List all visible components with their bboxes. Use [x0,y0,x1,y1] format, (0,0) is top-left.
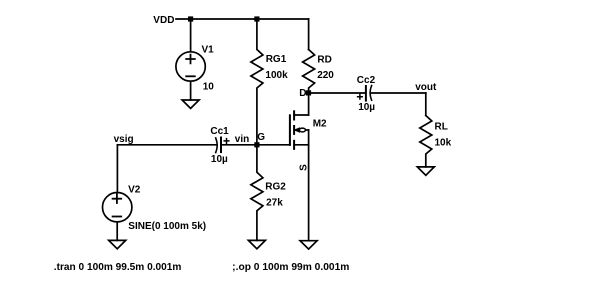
wire V1 top lead [190,19,192,52]
svg-text:V1: V1 [202,45,215,56]
wire Cc1 to node vin [221,144,257,146]
svg-text:SINE(0 100m 5k): SINE(0 100m 5k) [128,221,206,232]
channel bar bottom [293,141,295,149]
svg-text:10k: 10k [435,138,452,149]
wire vsig to Cc1 [117,144,216,146]
voltage source V1 [176,52,205,81]
svg-text:100k: 100k [265,70,288,81]
source stub [294,144,309,146]
junction vin/G [254,142,259,147]
resistor RD [303,50,315,94]
junction node D [306,90,311,95]
wire V2 bottom lead [116,222,118,241]
svg-text:Cc1: Cc1 [210,126,229,137]
resistor RL [420,116,432,167]
svg-text:V2: V2 [128,185,141,196]
wire vsig down to V2 [116,145,118,193]
wire V1 bottom lead [190,81,192,100]
svg-text:;.op 0 100m 99m 0.001m: ;.op 0 100m 99m 0.001m [232,262,349,273]
svg-text:vin: vin [235,134,249,145]
transistor M2 [290,111,309,149]
gate pole [289,115,291,145]
wire drain vertical [308,93,310,115]
voltage source V2 [103,193,132,222]
svg-text:M2: M2 [313,118,327,129]
wire source down to ground [308,145,310,241]
wire bulk to source corner [308,130,310,145]
svg-text:.tran 0 100m 99.5m 0.001m: .tran 0 100m 99.5m 0.001m [54,262,182,273]
svg-text:10µ: 10µ [358,102,375,113]
ground under M2 source [300,241,317,249]
capacitor Cc1 [216,138,218,153]
svg-text:RG1: RG1 [266,54,287,65]
svg-text:D: D [299,88,306,99]
svg-text:VDD: VDD [153,15,174,26]
svg-text:vsig: vsig [114,134,134,145]
wire vout corner down [425,93,427,116]
svg-text:27k: 27k [266,197,283,208]
resistor RG2 [251,145,263,241]
ground under V1 [182,100,199,108]
junction VDD/V1 [188,16,193,21]
svg-text:220: 220 [317,70,334,81]
capacitor Cc2 [365,86,367,101]
wire Cc2 to vout [371,92,426,94]
svg-text:10µ: 10µ [211,154,228,165]
wire rail corner down to RD [308,19,310,50]
drain stub [294,114,309,116]
ground under RG2 [248,240,265,248]
svg-text:RL: RL [435,122,448,133]
svg-text:vout: vout [415,82,437,93]
ground under RL [417,167,434,175]
wire D to Cc2 [309,92,366,94]
wire gate lead [257,144,290,146]
channel bar top [293,111,295,119]
channel bar middle [293,126,295,134]
wire VDD rail [176,18,309,20]
bulk arrow [294,129,309,131]
junction VDD/RG1 [254,16,259,21]
svg-text:Cc2: Cc2 [357,75,376,86]
svg-text:RD: RD [317,55,331,66]
ground under V2 [109,240,126,248]
svg-text:RG2: RG2 [265,182,286,193]
svg-text:G: G [257,132,265,143]
svg-text:10: 10 [203,81,215,92]
resistor RG1 [251,19,263,145]
